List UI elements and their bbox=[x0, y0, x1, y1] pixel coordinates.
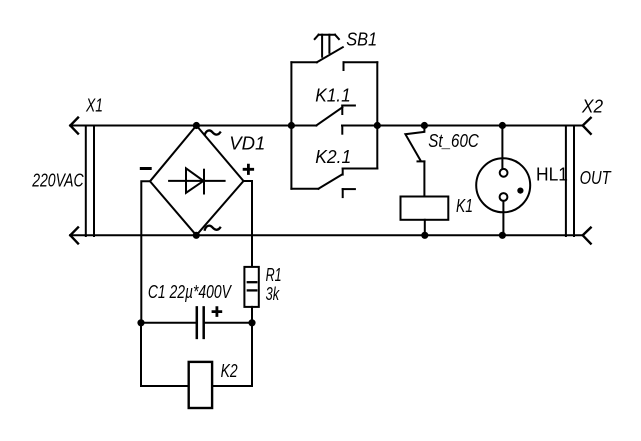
svg-text:K2.1: K2.1 bbox=[315, 147, 351, 167]
svg-text:K1.1: K1.1 bbox=[315, 86, 351, 106]
svg-text:R1: R1 bbox=[266, 265, 282, 285]
svg-text:HL1: HL1 bbox=[536, 165, 568, 185]
svg-text:220VAC: 220VAC bbox=[31, 170, 84, 190]
svg-text:OUT: OUT bbox=[580, 168, 613, 188]
svg-text:K2: K2 bbox=[221, 361, 238, 381]
svg-text:C1 22µ*400V: C1 22µ*400V bbox=[148, 282, 233, 302]
svg-text:SB1: SB1 bbox=[346, 29, 377, 49]
svg-text:St_60C: St_60C bbox=[428, 131, 479, 151]
svg-text:K1: K1 bbox=[456, 196, 473, 216]
svg-text:3k: 3k bbox=[266, 284, 280, 304]
svg-text:VD1: VD1 bbox=[229, 134, 265, 154]
svg-text:X1: X1 bbox=[85, 96, 103, 116]
svg-text:X2: X2 bbox=[581, 97, 603, 117]
